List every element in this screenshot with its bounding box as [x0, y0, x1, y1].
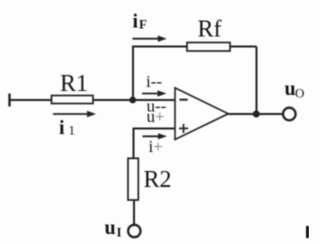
- arrow i-minus: [142, 90, 167, 96]
- terminal uO: [283, 108, 296, 121]
- node B (output junction): [253, 111, 260, 118]
- wire: input to inverting node and op-amp: [10, 99, 176, 101]
- svg-text:u+: u+: [147, 107, 165, 126]
- scan artifact at right edge: [306, 226, 309, 238]
- arrow i-plus: [143, 133, 168, 139]
- wire: non-inverting input: [134, 129, 176, 159]
- resistor R1: [52, 96, 94, 104]
- svg-text:R2: R2: [144, 167, 172, 193]
- svg-text:O: O: [295, 86, 304, 101]
- wire: feedback top: [132, 46, 257, 48]
- svg-text:Rf: Rf: [198, 17, 222, 43]
- wire: node to feedback (vertical): [132, 47, 134, 101]
- wire: op-amp output: [228, 113, 283, 115]
- wire: R2 to uI terminal: [133, 200, 135, 225]
- arrow iF: [133, 36, 167, 42]
- arrow i1: [53, 111, 96, 117]
- svg-text:i+: i+: [149, 137, 163, 156]
- svg-text:R1: R1: [60, 71, 88, 97]
- wire: feedback right vertical: [256, 47, 258, 115]
- op-amp U1: [175, 88, 228, 140]
- resistor R2: [128, 158, 138, 200]
- svg-text:i--: i--: [146, 72, 162, 91]
- svg-text:u: u: [105, 217, 116, 239]
- svg-text:I: I: [117, 225, 122, 240]
- svg-text:i: i: [59, 117, 65, 139]
- svg-text:u: u: [285, 78, 296, 100]
- svg-text:F: F: [139, 17, 147, 32]
- input terminal: [8, 94, 10, 107]
- resistor Rf: [187, 43, 230, 52]
- terminal uI: [128, 225, 140, 237]
- svg-text:i: i: [133, 11, 139, 33]
- svg-text:1: 1: [69, 122, 76, 137]
- node A (inverting input junction): [129, 97, 136, 104]
